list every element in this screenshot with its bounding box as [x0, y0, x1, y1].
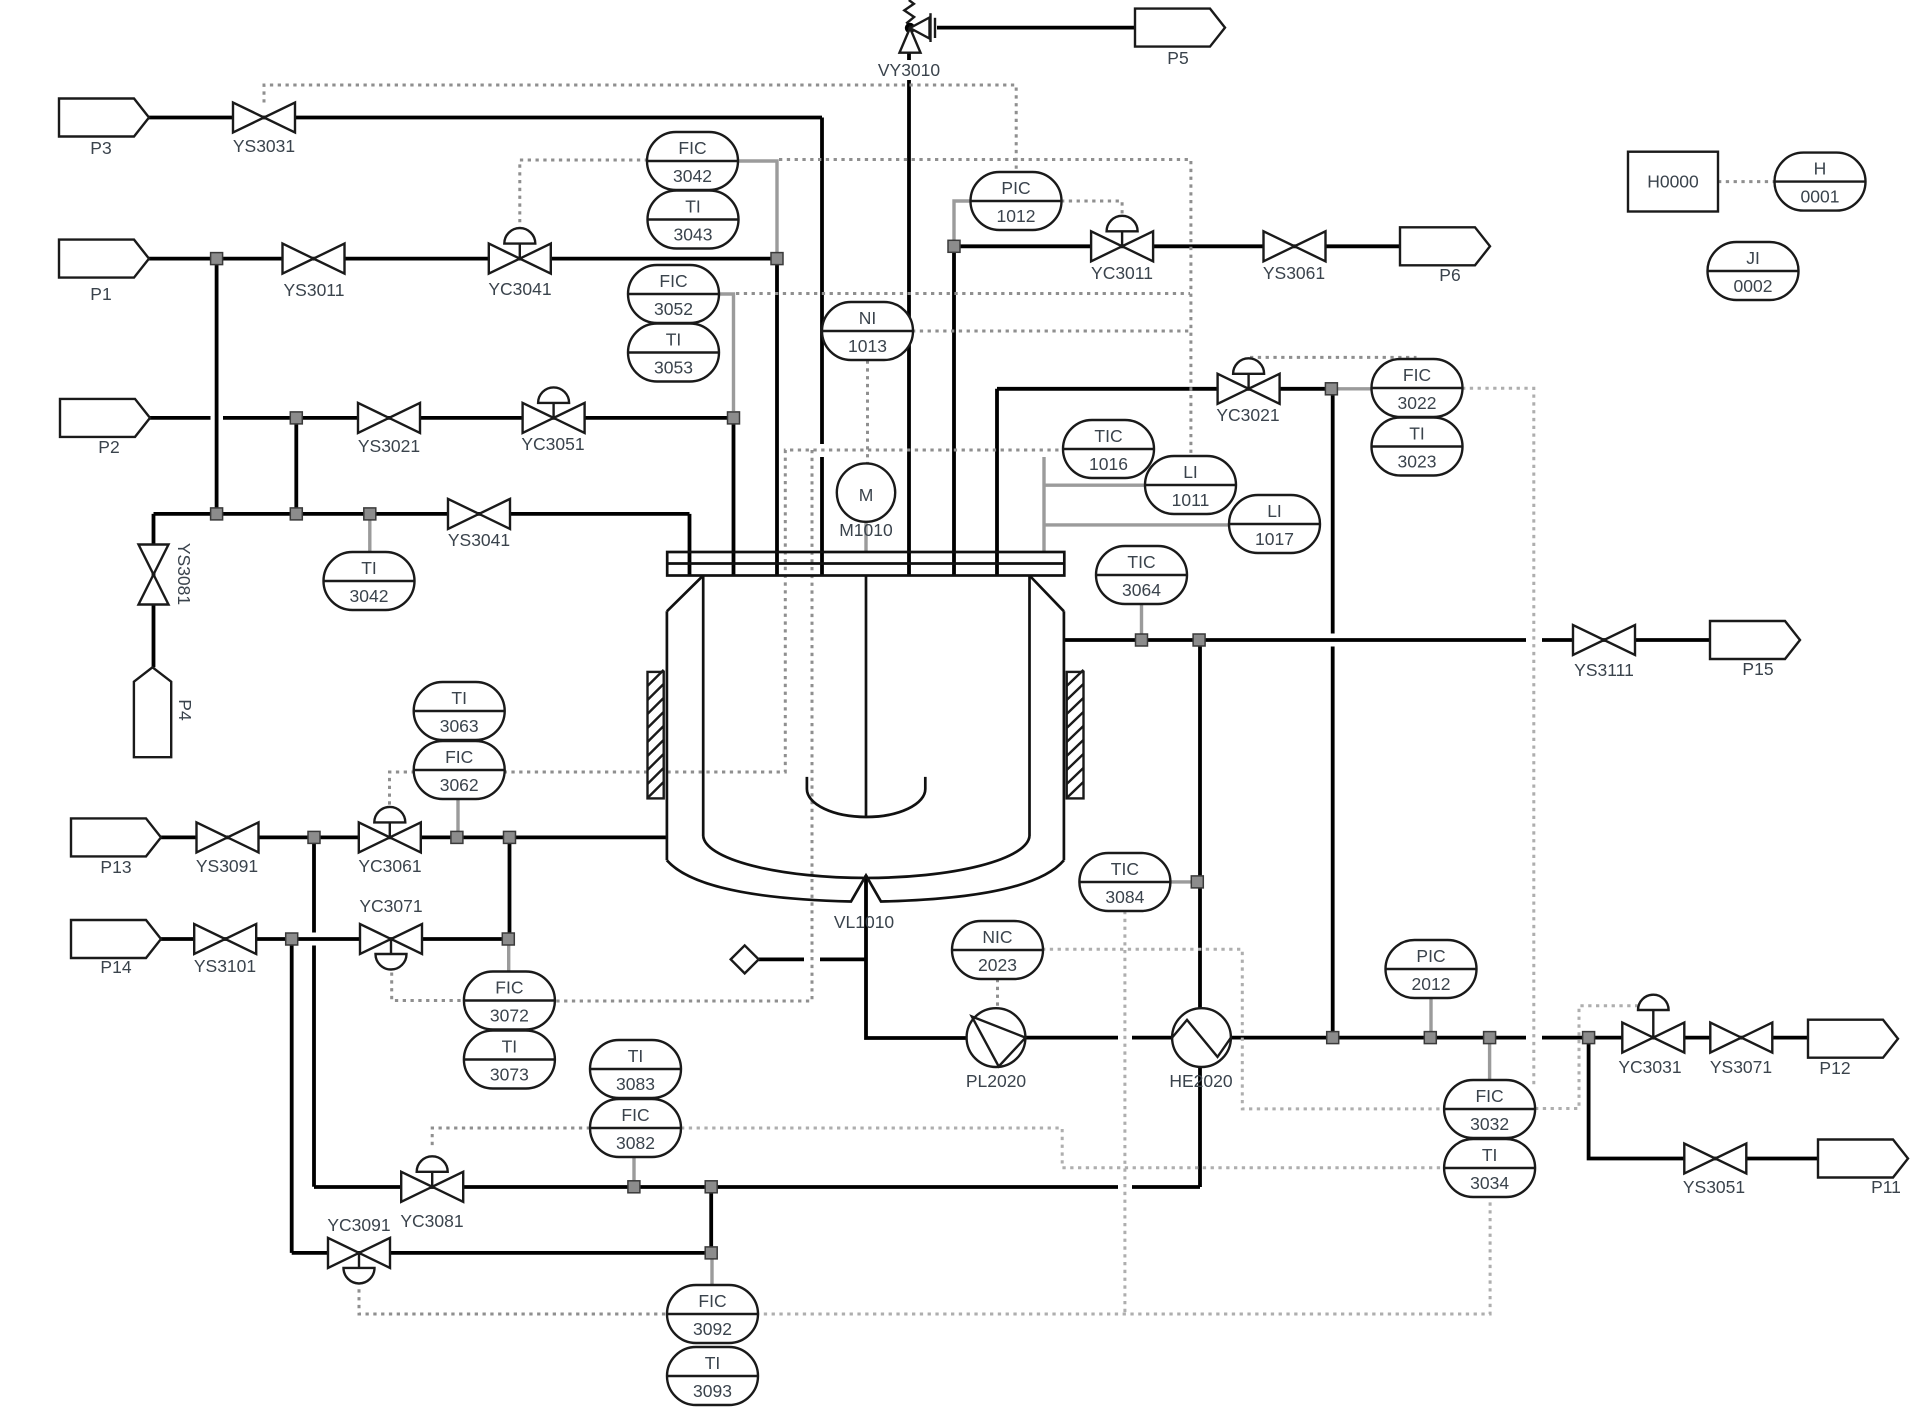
svg-text:3063: 3063: [440, 716, 479, 736]
node P1 junction: [211, 253, 223, 265]
svg-text:3042: 3042: [673, 166, 712, 186]
wire P3 line: [149, 118, 822, 576]
control valve YC3031: [1622, 995, 1684, 1053]
node FIC3032 tap junction: [1484, 1032, 1496, 1044]
svg-text:1013: 1013: [848, 336, 887, 356]
svg-text:FIC: FIC: [698, 1291, 726, 1311]
instrument NIC2023: [952, 921, 1043, 979]
svg-text:NI: NI: [859, 308, 877, 328]
wire P5 line: [937, 26, 1135, 30]
control valve YC3071: [360, 924, 422, 970]
heat exchanger HE2020: [1172, 1008, 1231, 1067]
wire FIC3072 tap: [507, 939, 510, 971]
wire signal FIC3082 to TI3034: [681, 1128, 1444, 1168]
wire P14 line: [161, 937, 510, 941]
instrument PIC2012: [1386, 940, 1477, 998]
wire P13 branch down: [312, 837, 316, 1186]
instrument NI1013: [822, 302, 913, 360]
svg-text:YC3091: YC3091: [327, 1215, 390, 1235]
svg-text:M1010: M1010: [839, 520, 893, 540]
instrument LI1017: [1229, 495, 1320, 553]
wire FIC3032 tap: [1488, 1038, 1491, 1080]
svg-text:YS3091: YS3091: [196, 856, 258, 876]
instrument TIC1016: [1063, 420, 1154, 478]
svg-text:VL1010: VL1010: [834, 912, 895, 932]
agitator shaft: [865, 576, 868, 818]
svg-text:P1: P1: [90, 284, 111, 304]
svg-text:TI: TI: [361, 558, 377, 578]
node FIC3092 tap junction: [705, 1247, 717, 1259]
vessel inner dish: [703, 836, 1029, 878]
instrument TI3083: [590, 1040, 681, 1098]
svg-text:3093: 3093: [693, 1381, 732, 1401]
wire FIC3082 tap: [632, 1157, 635, 1187]
wire P1 line: [149, 259, 777, 575]
node TIC3084 tap junction: [1191, 876, 1203, 888]
node TIC3064 tap junction: [1136, 634, 1148, 646]
node return line junction: [705, 1181, 717, 1193]
port P5: [1135, 9, 1225, 47]
wire signal YS3031 to PIC1012: [264, 85, 1016, 173]
wire signal FIC3032 to YC3031: [1535, 1006, 1646, 1109]
svg-text:YC3011: YC3011: [1091, 263, 1153, 283]
control valve YC3051: [523, 387, 585, 433]
valve YS3081: [139, 545, 169, 605]
vessel inner walls: [703, 576, 1029, 837]
instrument TI3034: [1444, 1139, 1535, 1197]
svg-text:NIC: NIC: [982, 927, 1012, 947]
wire signal FIC3042 to YC3041: [520, 160, 648, 228]
wire TIC3084 tap: [1170, 880, 1197, 883]
wire TIC3064 tap: [1140, 604, 1143, 640]
node P2 junction: [290, 412, 302, 424]
svg-text:FIC: FIC: [445, 747, 473, 767]
svg-text:2023: 2023: [978, 955, 1017, 975]
svg-text:YS3061: YS3061: [1263, 263, 1325, 283]
svg-text:LI: LI: [1267, 501, 1282, 521]
control valve YC3011: [1091, 216, 1153, 261]
svg-text:FIC: FIC: [1475, 1086, 1503, 1106]
svg-text:VY3010: VY3010: [878, 60, 941, 80]
svg-text:3083: 3083: [616, 1074, 655, 1094]
node PIC2012 tap junction: [1424, 1032, 1436, 1044]
valve YS3061: [1264, 231, 1326, 261]
svg-text:3022: 3022: [1398, 393, 1437, 413]
agitator paddle: [807, 777, 925, 817]
instrument PIC1012: [971, 172, 1062, 230]
wire signal FIC3062 to TIC1016: [504, 450, 1065, 772]
instrument TI3023: [1372, 418, 1463, 476]
wire P11 branch: [1589, 1038, 1818, 1159]
node YC3061 line junction: [504, 831, 516, 843]
wire P2 branch down: [294, 418, 298, 514]
svg-text:1016: 1016: [1089, 454, 1128, 474]
wire signal FIC3062 to YC3061: [390, 772, 415, 806]
svg-text:P11: P11: [1871, 1177, 1901, 1197]
svg-text:PL2020: PL2020: [966, 1071, 1027, 1091]
wire heat exchanger vertical: [1198, 640, 1202, 1187]
node FIC3052 tap junction: [728, 412, 740, 424]
block H0000: [1628, 152, 1718, 212]
wire P2 line: [150, 418, 734, 575]
node P11 branch junction: [1583, 1032, 1595, 1044]
valve YS3031: [233, 103, 295, 133]
svg-text:1017: 1017: [1255, 529, 1294, 549]
svg-text:P12: P12: [1819, 1058, 1850, 1078]
svg-text:LI: LI: [1183, 462, 1198, 482]
svg-text:YC3051: YC3051: [521, 434, 584, 454]
wire level dip tube: [1044, 457, 1230, 552]
svg-text:TI: TI: [1409, 424, 1425, 444]
svg-text:3064: 3064: [1122, 580, 1161, 600]
instrument LI1011: [1145, 456, 1236, 514]
node manifold junction 2: [290, 508, 302, 520]
heater jacket right: [1067, 670, 1084, 799]
svg-text:TIC: TIC: [1094, 426, 1122, 446]
node pump line junction: [1327, 1032, 1339, 1044]
wire signal FIC3042 to LI1011: [779, 160, 1191, 456]
wire signal H0000 to H0001: [1718, 180, 1775, 183]
pump PL2020: [967, 1008, 1026, 1067]
instrument TIC3064: [1096, 546, 1187, 604]
valve YS3071: [1710, 1023, 1772, 1053]
svg-text:3052: 3052: [654, 299, 693, 319]
svg-text:FIC: FIC: [678, 138, 706, 158]
svg-text:TI: TI: [685, 197, 701, 217]
wire signal TIC3084 down: [1123, 911, 1126, 1314]
svg-text:FIC: FIC: [621, 1105, 649, 1125]
svg-text:M: M: [859, 485, 874, 505]
svg-text:3023: 3023: [1398, 452, 1437, 472]
instrument TIC3084: [1079, 853, 1170, 911]
svg-text:3082: 3082: [616, 1133, 655, 1153]
svg-text:YS3111: YS3111: [1574, 660, 1634, 680]
svg-text:P2: P2: [98, 437, 119, 457]
port P6: [1400, 227, 1490, 265]
node YC3021 line junction: [1325, 383, 1337, 395]
node P15 line junction: [1193, 634, 1205, 646]
wire PIC2012 tap: [1429, 998, 1432, 1038]
valve YS3101: [194, 924, 256, 954]
valve YS3021: [358, 403, 420, 433]
wire signal PIC1012 to YC3011: [1061, 201, 1122, 217]
node FIC3082 tap junction: [628, 1181, 640, 1193]
wire signal YC3071 to FIC3072: [392, 973, 464, 1001]
svg-text:3032: 3032: [1470, 1114, 1509, 1134]
svg-text:YS3041: YS3041: [448, 530, 510, 550]
svg-text:H: H: [1814, 159, 1827, 179]
port P3: [59, 99, 149, 137]
svg-text:P14: P14: [100, 957, 131, 977]
instrument TI3063: [414, 682, 505, 740]
wire TI3042 tap: [368, 514, 371, 552]
wire FIC3092 tap: [710, 1253, 713, 1285]
svg-text:TI: TI: [451, 688, 467, 708]
svg-text:P4: P4: [175, 699, 195, 721]
wire P13 line: [161, 836, 667, 840]
control valve YC3021: [1218, 358, 1280, 404]
instrument FIC3042: [647, 132, 738, 190]
instrument H0001: [1775, 153, 1866, 211]
port P14: [71, 920, 161, 958]
wire PIC1012 tap: [954, 201, 971, 246]
wire signal FIC3052: [736, 292, 1190, 295]
wire pump outlet: [1026, 1036, 1809, 1040]
wire FIC3042 tap: [737, 161, 777, 252]
instrument FIC3022: [1372, 359, 1463, 417]
port P11: [1818, 1140, 1908, 1178]
wire signal NIC2023 to PL2020: [996, 979, 999, 1008]
port P2: [60, 399, 150, 437]
svg-text:YC3071: YC3071: [359, 896, 422, 916]
svg-text:YS3051: YS3051: [1683, 1177, 1745, 1197]
svg-text:3084: 3084: [1105, 887, 1144, 907]
svg-text:YS3031: YS3031: [233, 136, 295, 156]
drain diamond: [731, 945, 759, 973]
instrument FIC3092: [667, 1285, 758, 1343]
svg-text:1011: 1011: [1172, 490, 1210, 510]
wire signal NI1013 to M1010: [866, 361, 869, 463]
svg-text:3062: 3062: [440, 775, 479, 795]
instrument TI3053: [628, 324, 719, 382]
control valve YC3091: [328, 1238, 390, 1284]
valve YS3051: [1684, 1144, 1746, 1174]
instrument TI3073: [464, 1031, 555, 1089]
node FIC3062 tap junction: [451, 831, 463, 843]
instrument JI0002: [1708, 242, 1799, 300]
svg-text:YC3041: YC3041: [488, 279, 551, 299]
vessel jacket shoulders: [667, 576, 1064, 612]
valve YS3041: [448, 499, 510, 529]
wire signal FIC3022 down: [1462, 388, 1534, 1085]
instrument TI3093: [667, 1347, 758, 1405]
svg-text:TI: TI: [628, 1046, 644, 1066]
instrument FIC3072: [464, 972, 555, 1030]
wire return line: [314, 1185, 1200, 1189]
svg-text:P3: P3: [90, 138, 111, 158]
svg-text:FIC: FIC: [1403, 365, 1431, 385]
svg-text:TI: TI: [705, 1353, 721, 1373]
valve YS3091: [197, 822, 259, 852]
svg-text:3053: 3053: [654, 358, 693, 378]
wire P6 line: [954, 246, 1400, 575]
node P13 line junction: [308, 831, 320, 843]
instrument FIC3052: [628, 265, 719, 323]
svg-text:HE2020: HE2020: [1169, 1071, 1233, 1091]
svg-text:P6: P6: [1439, 265, 1460, 285]
svg-text:3092: 3092: [693, 1319, 732, 1339]
svg-text:0001: 0001: [1801, 187, 1840, 207]
wire P15 line: [1064, 638, 1710, 642]
svg-text:3073: 3073: [490, 1065, 529, 1085]
instrument FIC3032: [1444, 1080, 1535, 1138]
svg-text:3034: 3034: [1470, 1173, 1509, 1193]
node FIC3042 tap junction: [771, 253, 783, 265]
port P12: [1808, 1020, 1898, 1058]
wire FIC3062 tap: [456, 799, 459, 837]
svg-text:3072: 3072: [490, 1006, 529, 1026]
svg-text:H0000: H0000: [1647, 172, 1699, 192]
control valve YC3061: [359, 807, 421, 853]
port P4: [134, 667, 171, 757]
wire FIC3052 tap: [718, 294, 734, 411]
svg-text:2012: 2012: [1412, 974, 1451, 994]
wire VY3010 vent line: [907, 53, 911, 575]
svg-text:YC3061: YC3061: [358, 856, 421, 876]
motor M1010: [837, 463, 895, 521]
svg-text:YS3081: YS3081: [174, 543, 194, 605]
svg-text:TIC: TIC: [1111, 859, 1139, 879]
wire YC3021 line: [997, 389, 1333, 1038]
svg-text:JI: JI: [1746, 248, 1760, 268]
svg-text:PIC: PIC: [1001, 178, 1030, 198]
node FIC3072 tap junction: [502, 933, 514, 945]
svg-text:YS3011: YS3011: [284, 280, 345, 300]
vessel outer dish with drain notch: [667, 860, 1064, 901]
wire P1 branch down: [215, 259, 219, 514]
control valve YC3081: [401, 1156, 463, 1202]
svg-text:P5: P5: [1167, 48, 1188, 68]
instrument TI3042: [324, 552, 415, 610]
wire drain diamond line: [759, 958, 866, 962]
wire vessel drain: [866, 876, 967, 1039]
valve YS3111: [1573, 625, 1635, 655]
wire M1010 shaft coupling: [864, 522, 867, 552]
heater jacket left: [648, 670, 664, 799]
svg-text:P15: P15: [1742, 659, 1773, 679]
svg-text:TIC: TIC: [1127, 552, 1155, 572]
node P6 line junction: [948, 240, 960, 252]
wire signal to FIC3072 right: [555, 450, 812, 1001]
wire signal FIC3082 to YC3081: [432, 1128, 590, 1150]
vessel outer walls: [667, 611, 1064, 860]
svg-text:YC3031: YC3031: [1618, 1057, 1681, 1077]
wire manifold line: [154, 514, 690, 667]
instrument FIC3062: [414, 741, 505, 799]
svg-text:YS3071: YS3071: [1710, 1057, 1772, 1077]
svg-text:YC3081: YC3081: [400, 1211, 463, 1231]
svg-text:1012: 1012: [997, 206, 1036, 226]
wire signal NI1013: [912, 330, 1190, 333]
svg-text:YC3021: YC3021: [1216, 405, 1279, 425]
svg-text:FIC: FIC: [659, 271, 687, 291]
node TI3042 tap junction: [364, 508, 376, 520]
port P1: [59, 240, 149, 278]
node manifold junction 1: [211, 508, 223, 520]
wire signal YC3091 to FIC3092: [359, 1282, 667, 1315]
wire YC3091 line: [292, 1251, 712, 1255]
wire FIC3022 tap: [1331, 387, 1371, 390]
svg-text:TI: TI: [1482, 1145, 1498, 1165]
svg-text:TI: TI: [666, 330, 682, 350]
wire signal FIC3092 to TI3034: [756, 1198, 1490, 1314]
svg-text:PIC: PIC: [1416, 946, 1445, 966]
relief valve VY3010: [900, 0, 936, 53]
control valve YC3041: [489, 228, 551, 274]
wire signal YC3021 to FIC3022: [1250, 356, 1417, 359]
wire YC3081-YC3091 link: [709, 1187, 713, 1253]
svg-text:FIC: FIC: [495, 978, 523, 998]
svg-text:P13: P13: [100, 857, 131, 877]
wire signal NIC2023 to FIC3032: [1042, 949, 1444, 1109]
wire P14 branch down: [290, 939, 294, 1253]
svg-text:3043: 3043: [674, 225, 713, 245]
wire YC3061-YC3071 link: [508, 837, 512, 939]
port P13: [71, 818, 161, 856]
instrument FIC3082: [590, 1099, 681, 1157]
vessel flange: [667, 552, 1064, 576]
svg-text:3042: 3042: [350, 586, 389, 606]
port P15: [1710, 621, 1800, 659]
svg-text:TI: TI: [502, 1037, 518, 1057]
svg-text:0002: 0002: [1734, 276, 1773, 296]
svg-text:YS3101: YS3101: [194, 956, 256, 976]
instrument TI3043: [648, 191, 739, 249]
svg-text:YS3021: YS3021: [358, 436, 420, 456]
node P14 line junction: [286, 933, 298, 945]
valve YS3011: [283, 244, 345, 274]
